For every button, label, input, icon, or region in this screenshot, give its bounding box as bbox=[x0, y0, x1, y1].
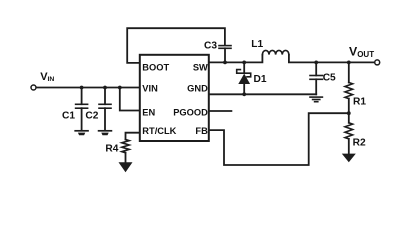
svg-text:RT/CLK: RT/CLK bbox=[142, 126, 176, 136]
svg-text:EN: EN bbox=[142, 108, 155, 118]
svg-text:R2: R2 bbox=[353, 138, 366, 149]
svg-text:GND: GND bbox=[187, 83, 208, 93]
svg-text:BOOT: BOOT bbox=[142, 62, 169, 72]
svg-text:C1: C1 bbox=[62, 111, 75, 122]
svg-text:D1: D1 bbox=[254, 74, 267, 85]
svg-text:C3: C3 bbox=[204, 41, 217, 52]
svg-text:C5: C5 bbox=[323, 73, 336, 84]
svg-text:FB: FB bbox=[195, 126, 208, 136]
svg-text:PGOOD: PGOOD bbox=[173, 108, 208, 118]
svg-text:C2: C2 bbox=[85, 111, 98, 122]
svg-text:R4: R4 bbox=[105, 144, 118, 155]
svg-text:R1: R1 bbox=[353, 96, 366, 107]
svg-text:VIN: VIN bbox=[142, 83, 158, 93]
svg-text:L1: L1 bbox=[251, 39, 263, 50]
svg-text:SW: SW bbox=[193, 62, 208, 72]
